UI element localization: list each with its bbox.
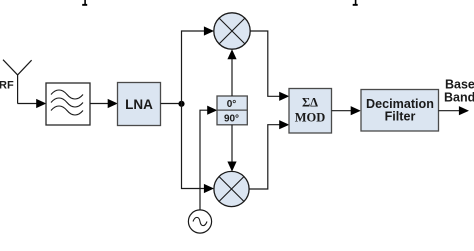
wire antenna to filter	[18, 99, 47, 108]
svg-text:RF: RF	[0, 79, 14, 91]
svg-text:Base: Base	[445, 78, 474, 92]
wire oscillator to phase shifter	[200, 106, 217, 210]
junction node	[178, 101, 184, 107]
caption fragment p (right)	[353, 0, 358, 6]
svg-text:Filter: Filter	[385, 110, 416, 124]
svg-text:Band: Band	[444, 91, 474, 105]
amplifier LNA	[118, 83, 161, 126]
local oscillator	[188, 210, 211, 233]
svg-text:90°: 90°	[224, 114, 239, 125]
wire LNA to node	[161, 103, 182, 105]
caption fragment p (left)	[82, 0, 87, 6]
wire mixer M1 to sigma-delta modulator	[250, 31, 289, 101]
wire filter to LNA	[90, 99, 118, 108]
svg-text:MOD: MOD	[295, 110, 326, 124]
wire decimation filter output	[439, 106, 470, 115]
label Base Band	[444, 78, 474, 105]
wire node to mixer M1	[182, 26, 215, 103]
phase shifter 0/90	[217, 96, 247, 125]
mixer M2	[214, 171, 249, 206]
sigma-delta modulator	[289, 89, 332, 134]
svg-text:LNA: LNA	[125, 97, 153, 112]
decimation filter	[361, 90, 439, 132]
wire phase 90 to mixer M2	[227, 125, 236, 172]
mixer M1	[214, 13, 250, 49]
wire node to mixer M2	[182, 104, 215, 193]
svg-text:ΣΔ: ΣΔ	[302, 95, 318, 109]
wire modulator to decimation filter	[332, 106, 361, 115]
band-pass filter	[46, 83, 90, 125]
wire mixer M2 to sigma-delta modulator	[249, 120, 289, 189]
wire phase 0 to mixer M1	[227, 49, 236, 96]
svg-text:0°: 0°	[227, 99, 237, 110]
antenna	[3, 60, 32, 104]
